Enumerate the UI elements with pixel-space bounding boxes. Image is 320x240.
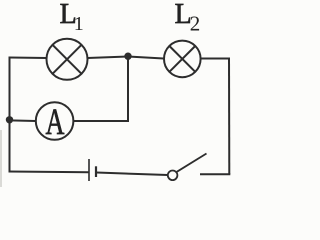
wire L2 to right corner (201, 58, 229, 60)
ammeter A body (36, 102, 74, 140)
wire top-left (10, 57, 48, 60)
wire ammeter to branch corner (74, 120, 128, 122)
switch S1 (open) (168, 154, 207, 181)
svg-text:2: 2 (190, 11, 201, 35)
switch lever arm (177, 154, 207, 172)
page edge artifact (0, 130, 2, 187)
wire branch vertical (127, 56, 129, 122)
wire bottom-right (200, 173, 230, 175)
lamp L2 (164, 41, 201, 78)
wire node A to ammeter (10, 119, 36, 122)
wire node to L2 (128, 57, 164, 59)
lamp L1 (47, 39, 88, 80)
wire bottom-left to battery (9, 171, 90, 174)
svg-text:1: 1 (74, 13, 84, 35)
wire battery to switch (97, 173, 168, 176)
battery positive plate (long) (88, 159, 90, 181)
switch pivot contact (168, 171, 178, 181)
node junction top (124, 53, 131, 60)
svg-text:A: A (45, 102, 64, 142)
wire L1 to node (88, 57, 129, 59)
battery negative plate (short) (95, 166, 97, 177)
wire right vertical (228, 58, 230, 175)
node junction left (6, 116, 13, 123)
battery cell B1 (89, 159, 96, 181)
wire left vertical (9, 57, 11, 173)
